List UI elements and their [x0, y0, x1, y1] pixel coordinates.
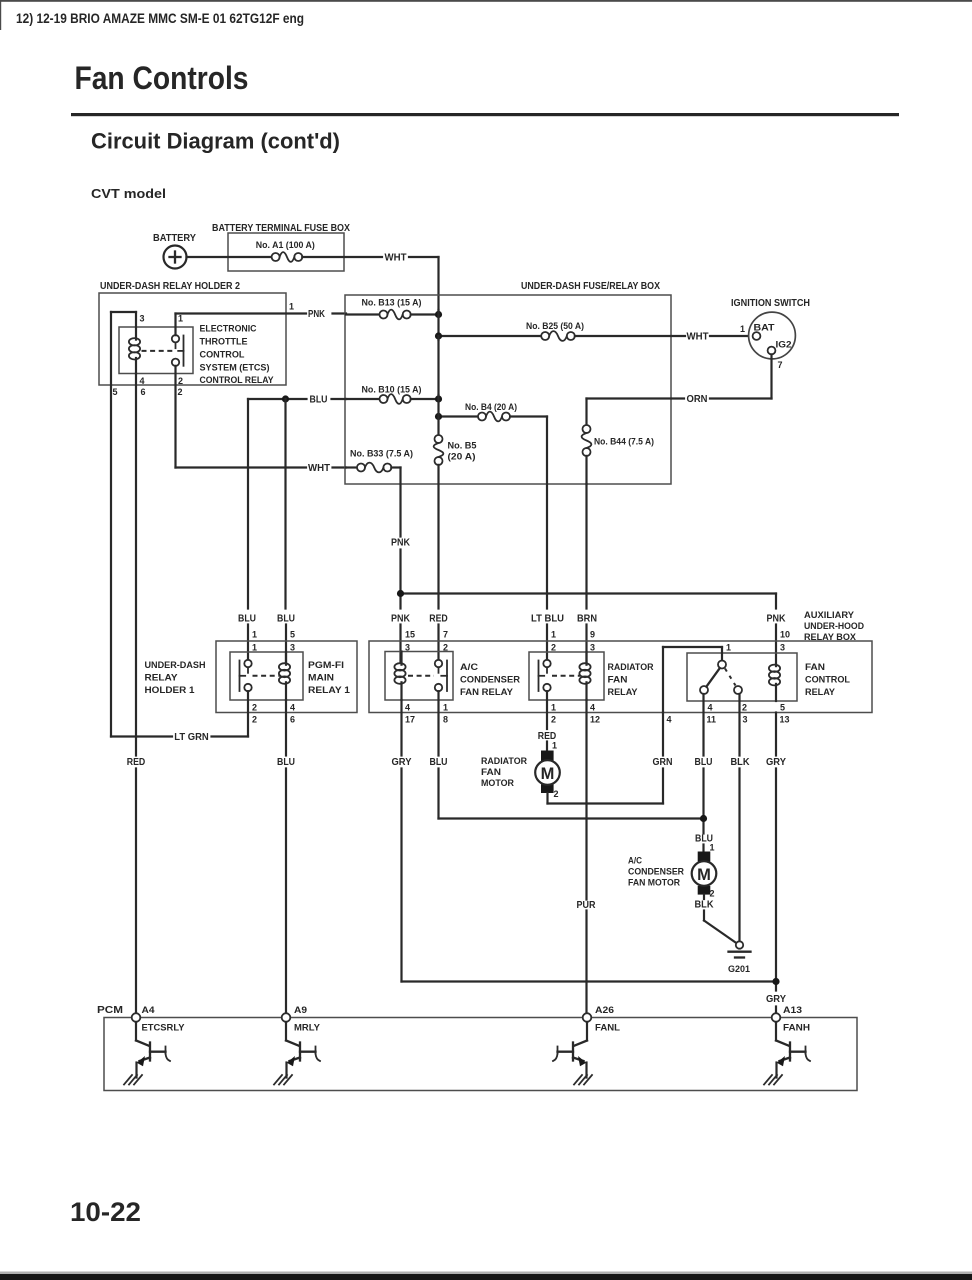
- wire GRY from A/C relay coil: [400, 700, 402, 756]
- wire LT GRN: [247, 691, 249, 736]
- ignition switch pin labels: [740, 323, 792, 371]
- junction BLU at A/C motor: [700, 815, 707, 822]
- svg-text:UNDER-DASH FUSE/RELAY BOX: UNDER-DASH FUSE/RELAY BOX: [521, 281, 660, 292]
- svg-text:3: 3: [780, 643, 785, 653]
- svg-text:No. B44 (7.5 A): No. B44 (7.5 A): [594, 437, 654, 447]
- fuse No. B10 (15 A): [346, 394, 439, 404]
- wire PNK net: [399, 468, 401, 537]
- junction WHT/B25: [435, 332, 442, 339]
- svg-text:BATTERY: BATTERY: [153, 233, 196, 244]
- svg-text:A9: A9: [294, 1005, 307, 1015]
- wire RED from B5: [437, 465, 439, 609]
- label A/C CONDENSER FAN RELAY: [460, 662, 521, 697]
- svg-text:No. B33 (7.5 A): No. B33 (7.5 A): [350, 449, 413, 459]
- svg-text:PUR: PUR: [577, 900, 597, 911]
- svg-text:BLU: BLU: [277, 614, 295, 625]
- svg-text:BLU: BLU: [238, 614, 256, 625]
- label RADIATOR FAN MOTOR: [481, 756, 527, 788]
- svg-text:1: 1: [551, 703, 556, 713]
- svg-text:UNDER-HOOD: UNDER-HOOD: [804, 621, 864, 631]
- PGM-FI relay pin labels: [252, 630, 295, 725]
- svg-text:RED: RED: [127, 757, 146, 768]
- svg-text:A26: A26: [595, 1005, 614, 1015]
- svg-text:FAN: FAN: [805, 662, 825, 672]
- wire ORN: [770, 354, 772, 398]
- svg-text:2: 2: [551, 643, 556, 653]
- wire fan control relay pin 1 to pin 4 terminal: [721, 647, 723, 660]
- svg-text:RADIATOR: RADIATOR: [481, 756, 527, 766]
- svg-text:12) 12-19 BRIO AMAZE MMC SM-E: 12) 12-19 BRIO AMAZE MMC SM-E 01 62TG12F…: [16, 11, 304, 26]
- PCM pin A4: [132, 1013, 141, 1022]
- svg-text:1: 1: [178, 314, 183, 324]
- svg-text:(20 A): (20 A): [448, 452, 476, 462]
- label AUXILIARY UNDER-HOOD RELAY BOX: [804, 610, 864, 642]
- svg-text:2: 2: [252, 703, 257, 713]
- svg-text:No. B13 (15 A): No. B13 (15 A): [362, 298, 422, 308]
- transistor MRLY: [274, 1022, 320, 1085]
- fan control relay: [687, 653, 797, 701]
- svg-text:PNK: PNK: [767, 614, 787, 625]
- fuse No. B5 (20 A): [434, 435, 444, 465]
- svg-text:BRN: BRN: [577, 614, 597, 625]
- junction WHT/B13: [435, 311, 442, 318]
- svg-text:4: 4: [290, 703, 295, 713]
- svg-text:PNK: PNK: [391, 614, 411, 625]
- svg-text:4: 4: [708, 703, 713, 713]
- label RADIATOR FAN RELAY: [608, 662, 654, 697]
- fuse No. B13 (15 A): [346, 310, 439, 320]
- fuse B5 value label: [448, 441, 477, 462]
- ETCS relay pin labels: [113, 302, 295, 398]
- svg-text:A13: A13: [783, 1005, 802, 1015]
- svg-text:BLK: BLK: [695, 900, 715, 911]
- wire WHT from ETCS pin 2: [174, 366, 176, 468]
- junction PNK: [397, 590, 404, 597]
- PCM pin A9: [282, 1013, 291, 1022]
- svg-text:WHT: WHT: [687, 332, 709, 343]
- svg-text:Circuit Diagram (cont'd): Circuit Diagram (cont'd): [91, 129, 340, 154]
- ETCS relay name label: [200, 324, 274, 386]
- label A/C CONDENSER FAN MOTOR: [628, 856, 684, 888]
- svg-text:2: 2: [710, 889, 715, 899]
- wire BLK from fan control pin 2: [738, 694, 740, 756]
- svg-text:12: 12: [590, 715, 600, 725]
- svg-text:BLU: BLU: [695, 757, 713, 768]
- svg-text:A/C: A/C: [628, 856, 642, 866]
- svg-text:M: M: [697, 866, 711, 884]
- auxiliary under-hood relay box: [369, 641, 872, 713]
- svg-text:7: 7: [443, 630, 448, 640]
- A/C relay pin labels: [405, 630, 448, 725]
- battery: [164, 246, 187, 269]
- wire PNK: [174, 314, 176, 336]
- A/C condenser fan relay: [385, 652, 453, 701]
- svg-text:10-22: 10-22: [70, 1197, 141, 1227]
- svg-text:CONTROL RELAY: CONTROL RELAY: [200, 375, 274, 385]
- svg-text:RED: RED: [429, 614, 448, 625]
- wire A/C motor pin 2 to ground: [703, 895, 705, 899]
- svg-text:4: 4: [140, 376, 145, 386]
- svg-text:SYSTEM (ETCS): SYSTEM (ETCS): [200, 363, 270, 373]
- svg-text:BAT: BAT: [754, 323, 776, 333]
- bottom bar: [0, 1272, 972, 1275]
- svg-text:GRY: GRY: [392, 757, 412, 768]
- under-dash relay holder 1 box: [216, 641, 357, 713]
- svg-text:PGM-FI: PGM-FI: [308, 660, 344, 670]
- fan control relay pin labels: [667, 630, 791, 725]
- wire GRY from fan control coil: [775, 713, 777, 756]
- wire ETCS pin 5 drop: [110, 312, 112, 737]
- svg-text:RELAY: RELAY: [145, 673, 178, 683]
- svg-text:WHT: WHT: [308, 463, 330, 474]
- A/C condenser fan motor: [692, 852, 717, 895]
- svg-text:3: 3: [140, 314, 145, 324]
- svg-text:GRN: GRN: [653, 757, 673, 768]
- svg-text:RELAY: RELAY: [805, 687, 835, 697]
- svg-text:FAN RELAY: FAN RELAY: [460, 687, 513, 697]
- label UNDER-DASH RELAY HOLDER 1: [145, 660, 206, 695]
- svg-text:Fan Controls: Fan Controls: [75, 60, 249, 96]
- svg-text:M: M: [541, 765, 555, 783]
- svg-text:3: 3: [290, 643, 295, 653]
- svg-text:G201: G201: [728, 964, 750, 974]
- svg-text:4: 4: [590, 703, 595, 713]
- svg-text:2: 2: [178, 376, 183, 386]
- svg-text:11: 11: [707, 715, 717, 725]
- svg-text:1: 1: [710, 843, 715, 853]
- svg-text:RELAY 1: RELAY 1: [308, 685, 350, 695]
- wire BLU to PGM-FI pin 1: [247, 399, 249, 609]
- radiator relay pin labels: [551, 630, 600, 725]
- transistor ETCSRLY: [124, 1022, 170, 1085]
- fuse No. A1 (100 A): [272, 252, 303, 262]
- svg-text:BLU: BLU: [430, 757, 448, 768]
- svg-text:6: 6: [141, 387, 146, 397]
- wire BRN from B44: [585, 484, 587, 609]
- svg-text:1: 1: [551, 630, 556, 640]
- svg-text:A4: A4: [142, 1005, 155, 1015]
- wire ETCS coil link: [111, 311, 136, 313]
- fuse No. B4 (20 A): [439, 412, 548, 422]
- svg-text:No. B4 (20 A): No. B4 (20 A): [465, 402, 517, 412]
- svg-text:UNDER-DASH: UNDER-DASH: [145, 660, 206, 670]
- svg-text:HOLDER 1: HOLDER 1: [145, 685, 195, 695]
- svg-text:CONDENSER: CONDENSER: [460, 675, 521, 685]
- svg-text:2: 2: [554, 789, 559, 799]
- label FAN CONTROL RELAY: [805, 662, 851, 697]
- svg-text:LT GRN: LT GRN: [174, 732, 209, 743]
- svg-text:3: 3: [405, 643, 410, 653]
- svg-text:1: 1: [289, 302, 294, 312]
- svg-text:1: 1: [726, 643, 731, 653]
- svg-text:BLK: BLK: [731, 757, 751, 768]
- svg-text:ETCSRLY: ETCSRLY: [142, 1023, 185, 1033]
- svg-text:WHT: WHT: [385, 253, 407, 264]
- svg-text:ELECTRONIC: ELECTRONIC: [200, 324, 257, 334]
- battery terminal fuse box: [228, 233, 344, 271]
- PCM box: [104, 1018, 857, 1091]
- svg-text:2: 2: [178, 387, 183, 397]
- svg-text:CONDENSER: CONDENSER: [628, 867, 684, 877]
- svg-text:10: 10: [780, 630, 790, 640]
- svg-text:CONTROL: CONTROL: [200, 350, 246, 360]
- wire battery to fuse box: [187, 256, 272, 258]
- svg-text:3: 3: [743, 715, 748, 725]
- ground G201: [729, 941, 751, 957]
- svg-text:2: 2: [551, 715, 556, 725]
- svg-text:9: 9: [590, 630, 595, 640]
- junction WHT/B10: [435, 395, 442, 402]
- page top border: [0, 0, 972, 2]
- svg-text:5: 5: [113, 387, 118, 397]
- wire LT BLU from B4: [546, 417, 548, 609]
- under-dash relay holder 2 box: [99, 293, 286, 385]
- wire WHT to ignition BAT: [710, 335, 752, 337]
- wire BLU from B10: [248, 398, 307, 400]
- PCM pin A26: [583, 1013, 592, 1022]
- under-dash fuse/relay box: [345, 295, 671, 484]
- svg-text:LT BLU: LT BLU: [531, 614, 564, 625]
- wire radiator motor pin 2: [546, 793, 548, 804]
- ETCS control relay: [119, 312, 193, 374]
- svg-text:IGNITION SWITCH: IGNITION SWITCH: [731, 298, 810, 309]
- wire PNK to fan control relay: [775, 594, 777, 609]
- wire BLU from fan control pin 11: [702, 694, 704, 756]
- svg-text:RELAY: RELAY: [608, 687, 638, 697]
- svg-text:6: 6: [290, 715, 295, 725]
- svg-text:13: 13: [780, 715, 790, 725]
- svg-text:4: 4: [667, 715, 672, 725]
- svg-text:UNDER-DASH RELAY HOLDER 2: UNDER-DASH RELAY HOLDER 2: [100, 281, 240, 292]
- svg-text:No. A1 (100 A): No. A1 (100 A): [256, 240, 315, 250]
- svg-text:2: 2: [252, 715, 257, 725]
- svg-text:THROTTLE: THROTTLE: [200, 337, 248, 347]
- transistor FANL: [553, 1022, 592, 1085]
- svg-text:A/C: A/C: [460, 662, 479, 672]
- svg-text:No. B5: No. B5: [448, 441, 477, 451]
- label PGM-FI MAIN RELAY 1: [308, 660, 350, 695]
- PGM-FI main relay 1: [230, 652, 303, 700]
- svg-text:15: 15: [405, 630, 415, 640]
- svg-text:MOTOR: MOTOR: [481, 778, 514, 788]
- svg-text:2: 2: [742, 703, 747, 713]
- svg-text:No. B10 (15 A): No. B10 (15 A): [362, 385, 422, 395]
- svg-text:PCM: PCM: [97, 1005, 123, 1016]
- wire WHT battery feed: [302, 256, 382, 258]
- svg-text:1: 1: [740, 324, 745, 334]
- transistor FANH: [764, 1022, 810, 1085]
- svg-text:FAN: FAN: [481, 767, 501, 777]
- svg-text:1: 1: [443, 703, 448, 713]
- wire BLU to PCM A9: [285, 700, 287, 756]
- ignition switch: [749, 312, 796, 359]
- svg-text:3: 3: [590, 643, 595, 653]
- svg-text:No. B25 (50 A): No. B25 (50 A): [526, 321, 584, 331]
- svg-text:GRY: GRY: [766, 994, 786, 1005]
- svg-text:8: 8: [443, 715, 448, 725]
- junction WHT/B4: [435, 413, 442, 420]
- svg-text:FANL: FANL: [595, 1023, 621, 1033]
- svg-text:1: 1: [552, 741, 557, 751]
- wire BLU from A/C relay switch: [437, 691, 439, 755]
- junction GRY: [772, 978, 779, 985]
- svg-text:1: 1: [252, 643, 257, 653]
- svg-text:CONTROL: CONTROL: [805, 675, 851, 685]
- svg-text:2: 2: [443, 643, 448, 653]
- svg-text:PNK: PNK: [391, 538, 411, 549]
- svg-text:AUXILIARY: AUXILIARY: [804, 610, 854, 620]
- svg-text:FAN: FAN: [608, 675, 628, 685]
- fuse No. B44 (7.5 A): [582, 399, 592, 485]
- svg-text:BLU: BLU: [310, 395, 328, 406]
- svg-text:FAN MOTOR: FAN MOTOR: [628, 878, 680, 888]
- svg-text:MRLY: MRLY: [294, 1023, 320, 1033]
- fuse No. B33 (7.5 A): [346, 463, 401, 473]
- svg-text:5: 5: [780, 703, 785, 713]
- svg-text:IG2: IG2: [776, 340, 792, 350]
- svg-text:5: 5: [290, 630, 295, 640]
- title rule: [71, 113, 899, 116]
- svg-text:GRY: GRY: [766, 757, 786, 768]
- svg-text:RADIATOR: RADIATOR: [608, 662, 654, 672]
- PCM pin A13: [772, 1013, 781, 1022]
- svg-text:BLU: BLU: [277, 757, 295, 768]
- svg-text:1: 1: [252, 630, 257, 640]
- wire RED to PCM A4: [135, 374, 137, 756]
- svg-text:PNK: PNK: [308, 309, 326, 320]
- svg-text:MAIN: MAIN: [308, 673, 334, 683]
- junction BLU branch: [282, 395, 289, 402]
- svg-text:CVT model: CVT model: [91, 187, 166, 201]
- svg-text:FANH: FANH: [783, 1023, 810, 1033]
- svg-text:ORN: ORN: [687, 394, 708, 405]
- wire PUR to PCM A26: [585, 700, 587, 900]
- wire GRN: [662, 713, 664, 756]
- wire BLU to PGM-FI coil: [284, 399, 286, 609]
- fuse No. B25 (50 A): [439, 331, 686, 341]
- radiator fan motor: [535, 751, 560, 794]
- wire RED to radiator fan motor: [546, 691, 548, 729]
- svg-text:17: 17: [405, 715, 415, 725]
- radiator fan relay: [529, 652, 604, 700]
- svg-text:4: 4: [405, 703, 410, 713]
- svg-text:7: 7: [778, 360, 783, 370]
